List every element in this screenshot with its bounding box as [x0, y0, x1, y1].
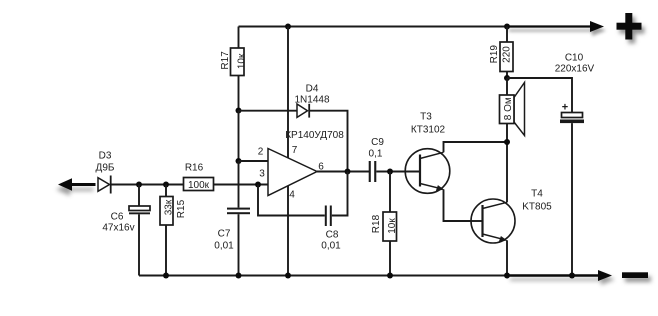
svg-text:4: 4: [289, 190, 295, 201]
node: C10 to negative rail: [569, 273, 575, 279]
node: R18 tap: [387, 169, 393, 175]
svg-text:D4: D4: [306, 84, 319, 95]
capacitor C8: [325, 206, 332, 227]
plus terminal symbol: [617, 13, 642, 40]
wire pin 2: [239, 160, 269, 162]
diode D3: [98, 176, 111, 194]
svg-text:33к: 33к: [163, 199, 174, 215]
resistor R17: [231, 27, 245, 111]
wire T3 emitter to T4 base: [444, 189, 483, 221]
svg-text:8 Ом: 8 Ом: [503, 97, 514, 120]
diode D4: [297, 104, 309, 118]
node: R19 / speaker / C10: [504, 75, 510, 81]
svg-text:КР140УД708: КР140УД708: [285, 130, 344, 141]
resistor R15: [160, 185, 173, 276]
svg-text:КТ3102: КТ3102: [411, 125, 446, 136]
node: speaker bottom / collectors: [504, 139, 510, 145]
input arrow (left): [58, 178, 96, 190]
wire C8 to output node: [332, 172, 348, 216]
wire pin 4 to negative rail: [287, 186, 289, 276]
svg-text:C7: C7: [218, 229, 231, 240]
svg-text:0,01: 0,01: [321, 241, 341, 252]
capacitor C10: [560, 113, 584, 276]
wire D4 cathode to output drop: [309, 111, 347, 172]
svg-text:7: 7: [292, 145, 298, 156]
capacitor C9: [369, 161, 377, 182]
wire C10 top branch: [507, 78, 572, 113]
svg-text:C10: C10: [565, 53, 584, 64]
svg-text:R19: R19: [489, 45, 500, 64]
svg-text:C6: C6: [111, 212, 124, 223]
node: feedback tap on pin 3: [255, 182, 261, 188]
svg-text:3: 3: [259, 169, 265, 180]
svg-text:T3: T3: [420, 112, 432, 123]
svg-text:Д9Б: Д9Б: [96, 163, 115, 174]
node: R15 tap: [163, 182, 169, 188]
wire C9 to T3 base: [376, 171, 420, 173]
transistor T3: [403, 149, 450, 194]
capacitor C6: [129, 185, 150, 276]
wire D4 anode: [239, 110, 298, 112]
node A: R17 / D4 junction: [236, 108, 242, 114]
wire feedback from pin3 node down and right: [258, 185, 325, 216]
op-amp U1 triangle: [268, 149, 317, 196]
wire R16 to pin 3: [214, 184, 269, 186]
node: pin4 to negative rail: [285, 273, 291, 279]
svg-text:220x16V: 220x16V: [555, 64, 595, 75]
svg-text:10к: 10к: [237, 53, 248, 69]
wire op-amp output: [317, 171, 369, 173]
wire T4 collector up to speaker node: [506, 142, 508, 202]
node: T4 emitter to negative rail: [504, 273, 510, 279]
minus terminal symbol: [622, 272, 648, 278]
svg-text:R15: R15: [176, 199, 187, 218]
resistor R16: [184, 178, 214, 191]
svg-text:T4: T4: [531, 189, 543, 200]
resistor R19: [500, 27, 513, 79]
svg-text:0,1: 0,1: [369, 149, 383, 160]
transistor T4: [469, 199, 515, 243]
wire node A down to pin2 node: [238, 111, 240, 162]
capacitor C7: [227, 208, 250, 276]
svg-text:100к: 100к: [188, 180, 210, 191]
positive supply arrow: [507, 21, 604, 32]
wire bottom negative rail: [139, 275, 507, 277]
node: R15 to negative rail: [163, 273, 169, 279]
wire T3 collector up to speaker node: [444, 142, 508, 152]
svg-text:220: 220: [502, 46, 513, 63]
svg-text:C8: C8: [326, 230, 339, 241]
negative supply arrow: [507, 270, 612, 281]
svg-text:D3: D3: [99, 151, 112, 162]
speaker LS1 (8 Ом): [500, 78, 525, 142]
node: C6 tap: [136, 182, 142, 188]
svg-text:1N1448: 1N1448: [294, 95, 329, 106]
svg-text:0,01: 0,01: [214, 241, 234, 252]
svg-text:47x16v: 47x16v: [102, 223, 134, 234]
resistor R18: [383, 172, 397, 276]
wire input line to R16: [111, 184, 184, 186]
node B: pin 2 junction: [236, 158, 242, 164]
node: top rail to op-amp V+: [285, 24, 291, 30]
svg-text:R18: R18: [371, 214, 382, 233]
wire node B down to C7: [238, 161, 240, 208]
wire top positive rail: [239, 26, 508, 28]
svg-text:2: 2: [258, 147, 264, 158]
svg-text:10к: 10к: [387, 218, 398, 234]
svg-text:+: +: [562, 102, 568, 114]
node: R18 to negative rail: [387, 273, 393, 279]
wire op-amp V+ (pin7) drop: [287, 27, 289, 158]
svg-text:KT805: KT805: [522, 202, 552, 213]
node: output / D4 / C8: [345, 169, 351, 175]
wire T4 emitter to negative rail: [506, 240, 508, 275]
svg-text:R17: R17: [220, 51, 231, 70]
svg-text:C9: C9: [371, 137, 384, 148]
node: C7 to negative rail: [236, 273, 242, 279]
svg-text:R16: R16: [185, 163, 204, 174]
node: top rail to R19: [504, 24, 510, 30]
